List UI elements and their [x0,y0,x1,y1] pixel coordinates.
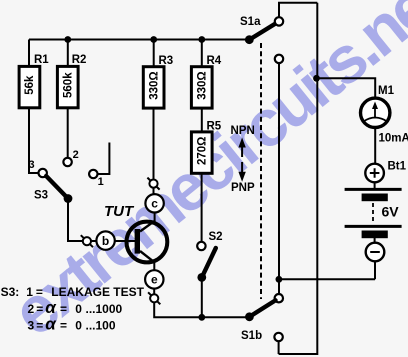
clip b [81,235,93,247]
svg-text:0: 0 [75,319,82,333]
meter scale arc [364,118,388,122]
svg-text:330Ω: 330Ω [149,71,161,99]
NPN arrow [231,125,255,157]
S3 arm [46,176,68,199]
svg-text:1: 1 [98,176,104,188]
transistor base bar [135,229,140,254]
wire R1 bottom to S3 contact3 [29,108,38,173]
svg-text:270Ω: 270Ω [197,137,209,165]
switch S3 [29,149,104,203]
S2 arm [202,248,216,277]
svg-text:Bt1: Bt1 [388,161,407,173]
meter needle [374,107,376,119]
S1a contact 2 [275,55,283,63]
wire Bt1 to cell1 [374,182,376,188]
svg-text:S3: S3 [34,190,48,202]
svg-text:R5: R5 [207,121,222,133]
resistor R1 [19,54,49,108]
svg-text:=: = [60,319,67,333]
S2 pole dot [197,273,206,282]
terminal b [96,231,114,249]
wire R5 to S2 contact [201,174,203,242]
transistor collector stroke [140,221,155,232]
battery cell 2 [345,226,402,238]
wire battery return [279,261,375,279]
switch S1a [240,16,283,63]
terminal e [145,270,163,288]
node dot R4 top [198,36,205,43]
svg-text:0: 0 [75,302,82,316]
wire clip b to b circle [91,240,97,242]
wire cell2 to minus circle [374,238,376,243]
meter body circle [361,98,390,127]
svg-text:S2: S2 [209,231,223,243]
wire R3 bottom to clip c [153,108,155,179]
wire right rail [279,3,318,354]
svg-text:S3:: S3: [1,285,20,299]
node dot R2 top [64,36,71,43]
svg-text:S1a: S1a [240,16,261,28]
resistor R4 [191,55,221,108]
resistor R5 [191,121,221,174]
wire S3 contact1 stub [98,143,110,175]
svg-text:TUT: TUT [104,203,135,220]
resistor R4 body [191,67,212,108]
S1a contact 1 [275,17,283,25]
meter M1 [361,85,408,145]
svg-text:e: e [151,273,158,287]
resistor R5 body [191,132,212,173]
wire e circle to clip e [153,289,155,295]
svg-text:3: 3 [28,319,35,333]
svg-text:R3: R3 [159,55,174,67]
wire R1 top [28,40,30,67]
battery minus terminal [366,243,385,262]
wire R2 bottom to S3 contact2 [67,108,69,158]
svg-text:330Ω: 330Ω [197,71,209,99]
transistor emitter stroke [140,251,155,263]
gang dashed line S1a-S1b [260,43,262,299]
svg-text:6V: 6V [382,204,400,220]
node dot meter branch [313,75,320,82]
wire base [115,240,137,242]
resistor R3 body [143,67,164,108]
S3 contact 3 [39,169,47,177]
svg-text:S1b: S1b [241,330,262,342]
svg-text:R4: R4 [207,55,222,67]
S1a arm [249,23,276,40]
resistor R2 [57,54,86,108]
wire S1b lower contact to rail [278,341,280,354]
switch S1b [241,294,283,342]
node dot S2 bottom [198,314,205,321]
wire R4 to R5 [201,108,203,132]
svg-text:3: 3 [29,159,35,171]
node dot battery return [276,276,283,283]
S3 legend text [1,285,145,334]
resistor R3 [143,55,173,108]
wire R4 top [201,40,203,67]
node dot R3 top [150,36,157,43]
svg-text:56k: 56k [24,75,36,95]
svg-text:=: = [36,302,43,316]
svg-text:...100: ...100 [86,319,116,333]
svg-text:M1: M1 [378,85,395,97]
S1b contact 1 [275,294,283,302]
svg-text:10mA: 10mA [379,133,408,145]
battery cell 1 [345,189,402,201]
resistor R1 body [19,66,40,107]
svg-text:R2: R2 [72,54,87,66]
wire top bus [29,39,249,41]
transistor circle [126,222,167,263]
wire M1 to Bt1 [374,128,376,164]
svg-text:...1000: ...1000 [86,302,123,316]
clip c [147,178,159,190]
svg-text:2: 2 [28,302,35,316]
battery dashed line [372,203,374,222]
wire clip c to c circle [153,188,155,194]
svg-text:c: c [151,197,158,211]
svg-text:1: 1 [26,285,33,299]
svg-text:=: = [36,285,43,299]
S1b contact 2 [274,333,282,341]
svg-text:=: = [60,302,67,316]
svg-text:R1: R1 [34,54,49,66]
battery Bt1 plus terminal [365,161,406,183]
wire R3 top [153,40,155,67]
svg-text:b: b [102,234,109,248]
clip e [148,292,160,304]
wire S3 pole to clip b [68,200,83,241]
wire R2 top [67,40,69,67]
svg-text:2: 2 [73,149,79,161]
svg-text:LEAKAGE TEST: LEAKAGE TEST [51,285,144,299]
wire transistor to e circle [153,262,155,270]
wire S1a contact1 to top rail [279,3,317,17]
S2 contact [197,242,205,250]
wire S2 pole down [201,277,203,317]
S1a pole dot [245,35,254,44]
PNP arrow [231,162,255,194]
svg-text:560k: 560k [63,72,75,98]
S3 pole dot [64,194,73,203]
wire e clip to S1b pole [154,303,246,318]
resistor R2 body [57,66,78,107]
terminal c [145,194,163,212]
S3 contact 2 [63,158,71,166]
switch S2 [197,231,222,282]
svg-text:PNP: PNP [231,182,255,194]
transistor TUT [104,203,167,263]
svg-text:=: = [36,319,43,333]
S1b pole dot [245,312,254,321]
S1b arm [249,300,275,317]
wire c circle to transistor [154,213,156,222]
svg-text:NPN: NPN [231,125,255,137]
S3 contact 1 [89,170,97,178]
svg-text:α: α [45,315,57,334]
wire S1a contact2 down to S1b contact1 [278,63,280,294]
wire meter branch [317,78,376,98]
wire S1a pole feed [248,39,250,41]
